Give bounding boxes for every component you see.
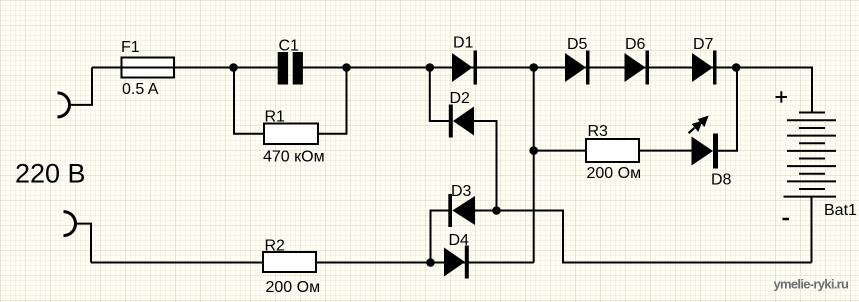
svg-text:R1: R1: [265, 109, 286, 126]
svg-text:D6: D6: [625, 36, 646, 53]
svg-text:200 Ом: 200 Ом: [587, 165, 642, 182]
svg-text:D8: D8: [711, 171, 732, 188]
svg-text:D2: D2: [450, 90, 471, 107]
svg-text:D7: D7: [693, 36, 714, 53]
svg-text:D3: D3: [451, 183, 472, 200]
svg-text:Bat1: Bat1: [824, 202, 857, 219]
svg-text:R2: R2: [265, 238, 286, 255]
svg-text:D1: D1: [453, 35, 474, 52]
svg-text:F1: F1: [121, 39, 140, 56]
svg-text:470 кОм: 470 кОм: [263, 149, 325, 166]
svg-text:D4: D4: [449, 232, 470, 249]
svg-text:200 Ом: 200 Ом: [266, 279, 321, 296]
svg-text:R3: R3: [588, 123, 609, 140]
svg-text:D5: D5: [567, 36, 588, 53]
svg-text:C1: C1: [279, 38, 300, 55]
svg-text:220 В: 220 В: [15, 159, 86, 189]
svg-text:0.5 A: 0.5 A: [122, 81, 159, 98]
svg-text:ymelie-ryki.ru: ymelie-ryki.ru: [774, 277, 850, 292]
